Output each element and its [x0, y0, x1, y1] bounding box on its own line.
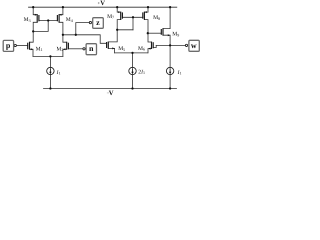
svg-text:n: n	[89, 44, 94, 53]
transistor M8 channel	[143, 12, 145, 20]
wire M7 drain node horizontal	[117, 29, 133, 31]
arrow nmos M5	[112, 47, 114, 49]
wire M1 gate to p port	[16, 45, 27, 47]
wire tail2 down to 2I1	[132, 53, 134, 68]
arrow nmos M6	[148, 48, 150, 50]
transistor M8 gate bar	[142, 12, 144, 18]
current source I1 left circle	[47, 67, 54, 74]
wire M7 source riser	[117, 7, 121, 12]
wire tail down to I1	[49, 56, 51, 67]
junction dot -V I1 right	[169, 87, 171, 89]
wire M9 source down to w net and I1	[163, 35, 170, 67]
wire M1 source to tail	[30, 49, 34, 56]
svg-text:M5: M5	[118, 46, 125, 52]
svg-text:M7: M7	[107, 14, 114, 20]
transistor M4 channel	[58, 14, 60, 22]
wire M8 drain to M6 drain	[144, 20, 151, 42]
svg-text:M9: M9	[172, 32, 179, 38]
transistor M1 gate bar	[27, 43, 29, 50]
wire tail of M1/M2	[33, 55, 63, 57]
arrow pmos M4	[59, 14, 61, 16]
svg-text:I1: I1	[56, 70, 61, 76]
port circle w	[185, 44, 187, 46]
transistor M3 channel	[36, 14, 38, 22]
wire M5 drain column to M7 drain	[108, 20, 120, 42]
port circle n	[83, 48, 85, 50]
port box w	[189, 40, 199, 51]
arrow pmos M7	[118, 11, 120, 13]
port circle p	[14, 44, 16, 46]
svg-text:M8: M8	[153, 15, 160, 21]
junction dot rail M3	[32, 6, 34, 8]
wire M9 gate from M8 drain node	[148, 32, 162, 34]
wire M9 drain riser	[163, 7, 170, 28]
junction dot M7 drain node	[116, 29, 118, 31]
junction dot tail2	[131, 52, 133, 54]
svg-text:2I1: 2I1	[138, 69, 145, 75]
transistor M2 gate bar	[67, 43, 69, 50]
wire I1 to -V rail	[49, 74, 51, 88]
wire gate tie down to M3 drain	[33, 21, 48, 32]
transistor M5 gate bar	[106, 42, 108, 48]
transistor M2 channel	[66, 42, 68, 50]
junction dot tail1	[49, 55, 51, 57]
current source 2I1 circle	[129, 67, 136, 74]
wire M2 gate to n port	[68, 48, 83, 50]
arrowhead I1 left	[49, 72, 51, 75]
arrowhead 2I1	[131, 72, 133, 75]
junction dot rail M4	[62, 6, 64, 8]
wire M3 drain to M1 drain	[30, 22, 38, 42]
wire M5 source to tail2	[108, 48, 114, 53]
svg-text:M2: M2	[56, 46, 63, 52]
+V rail	[29, 6, 177, 8]
wire gate tie down	[132, 17, 134, 30]
arrow inside I1 left	[49, 68, 51, 72]
current source I1 right circle	[166, 67, 173, 74]
junction dot M4 drain bus	[62, 34, 64, 36]
transistor M1 channel	[29, 42, 31, 50]
port box z	[93, 18, 104, 29]
-V rail	[44, 88, 177, 90]
junction dot rail M8	[147, 6, 149, 8]
junction dot M3/M4 gate wire	[47, 19, 49, 21]
transistor M7 channel	[120, 12, 122, 20]
arrow inside 2I1	[132, 68, 134, 72]
svg-text:I1: I1	[177, 70, 182, 76]
svg-text:w: w	[191, 41, 197, 50]
junction dot w net	[169, 44, 171, 46]
wire M8 source riser	[144, 7, 148, 12]
svg-text:M3: M3	[24, 17, 31, 23]
wire M7-M8 gate tie	[122, 16, 142, 18]
junction dot rail M9	[169, 6, 171, 8]
svg-text:V: V	[100, 0, 105, 7]
port box n	[86, 44, 96, 55]
wire M4 drain to M2 drain	[59, 22, 67, 42]
svg-text:p: p	[6, 41, 11, 50]
wire M4 source riser	[59, 7, 63, 15]
wire w net	[156, 44, 185, 46]
junction dot M7/M8 gate wire	[132, 16, 134, 18]
junction dot rail M7	[116, 6, 118, 8]
arrow inside I1 right	[169, 68, 171, 72]
port box p	[3, 40, 13, 51]
transistor M3 gate bar	[38, 15, 40, 21]
transistor M6 gate bar	[152, 42, 154, 48]
wire tail2 of M5/M6	[115, 52, 148, 54]
svg-text:M4: M4	[66, 17, 73, 23]
svg-text:M1: M1	[36, 46, 43, 52]
transistor M7 gate bar	[121, 12, 123, 18]
junction dot M3 diode tie	[32, 30, 34, 32]
svg-text:V: V	[109, 90, 114, 97]
arrow pmos M3	[35, 14, 37, 16]
arrowhead I1 right	[169, 72, 171, 75]
transistor M5 channel	[107, 42, 109, 49]
port circle z	[89, 22, 91, 24]
wire I1 right to -V rail	[169, 74, 171, 88]
wire z tap	[76, 23, 90, 35]
wire M3-M4 gate tie	[39, 20, 58, 22]
junction dot z tap	[75, 34, 77, 36]
svg-text:M6: M6	[138, 46, 145, 52]
junction dot -V 2I1	[131, 87, 133, 89]
wire M6 source down to tail2	[148, 49, 152, 53]
transistor M9 channel	[162, 28, 164, 35]
arrow nmos M1	[31, 48, 33, 50]
arrow nmos M9	[168, 34, 170, 36]
junction dot -V I1 left	[49, 87, 51, 89]
wire M6 gate up to w net	[153, 45, 156, 47]
arrow nmos M2	[63, 48, 65, 50]
wire 2I1 to -V rail	[132, 74, 134, 88]
transistor M4 gate bar	[56, 15, 58, 21]
arrow pmos M8	[145, 11, 147, 13]
transistor M9 gate bar	[160, 29, 162, 35]
junction dot M9 gate node	[147, 32, 149, 34]
wire first-stage output bus to M5 gate	[63, 35, 107, 44]
wire M2 source to tail	[63, 49, 67, 56]
svg-text:z: z	[96, 18, 100, 27]
wire M3 source riser	[33, 7, 37, 15]
transistor M6 channel	[151, 42, 153, 49]
